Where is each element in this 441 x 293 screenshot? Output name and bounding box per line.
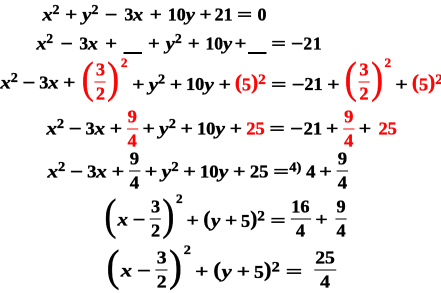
- line 6: [103, 199, 347, 241]
- line 5: [47, 153, 348, 191]
- line 7: [105, 250, 336, 292]
- line 2: x^2 - 3x + __ + y^2 + 10y + __ = -21: [36, 33, 322, 55]
- line 1: x^2 + y^2 - 3x + 10y + 21 = 0: [42, 4, 266, 26]
- line 4: [46, 110, 397, 148]
- line 3: [0, 63, 441, 103]
